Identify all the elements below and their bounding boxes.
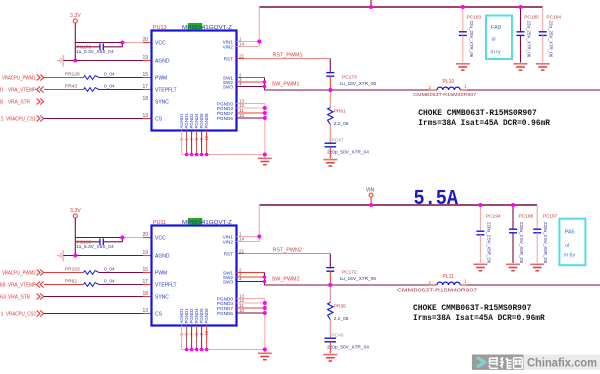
- svg-text:22u_25V_X7R_06: 22u_25V_X7R_06: [549, 21, 554, 58]
- ground (left of AGND): [62, 250, 64, 262]
- capacitor PC47 220p_50V_X7R_04: [325, 142, 337, 144]
- capacitor PC184 22u_25V_X7R_06: [542, 7, 544, 32]
- buck power stage IC PU13 MP86941GQVT-Z: [152, 31, 237, 131]
- svg-text:PC184: PC184: [546, 14, 561, 20]
- green highlight on part number: [188, 23, 203, 29]
- svg-text:2.2_06: 2.2_06: [334, 121, 349, 127]
- svg-text:5.5A: 5.5A: [414, 188, 459, 211]
- svg-text:PC193: PC193: [467, 14, 482, 20]
- watermark arrow: [477, 357, 485, 367]
- svg-text:21: 21: [239, 53, 245, 58]
- capacitor PC173 1u_16V_X7R_06: [326, 72, 334, 74]
- wire AGND to pin 19: [63, 60, 143, 62]
- svg-text:PR153: PR153: [65, 267, 80, 273]
- ground (PGND bus): [264, 155, 266, 158]
- junction: [263, 301, 267, 305]
- svg-text:1u_6.3V_X5S_04: 1u_6.3V_X5S_04: [76, 244, 114, 250]
- junction: [73, 59, 77, 63]
- junction: [263, 280, 267, 284]
- wire resistor to pin: [99, 272, 143, 274]
- buck power stage IC PU11 MP86941GQVT-Z: [152, 226, 237, 326]
- junction: [511, 203, 515, 207]
- PGND bus wire: [182, 349, 265, 351]
- note box (cyan) bottom: [559, 219, 585, 266]
- svg-text:PGND8: PGND8: [204, 113, 209, 129]
- svg-text:220p_50V_X7R_04: 220p_50V_X7R_04: [327, 344, 369, 350]
- wire VIN1/VIN2 to input rail: [237, 41, 260, 43]
- wire RST to RST_PWM1: [237, 58, 245, 60]
- junction: [263, 85, 267, 89]
- green highlight on part number: [188, 218, 203, 224]
- wire to pin: [44, 118, 143, 120]
- svg-text:63: 63: [0, 294, 6, 300]
- svg-text:1: 1: [1, 311, 4, 317]
- svg-text:m ry: m ry: [491, 50, 501, 56]
- wire VIN feed stub (cropped): [370, 0, 372, 7]
- wire input rail (phase 2): [259, 204, 537, 206]
- svg-text:VCC: VCC: [155, 236, 166, 242]
- ground (PC188): [506, 263, 520, 265]
- svg-text:13: 13: [142, 113, 148, 119]
- svg-text:1u_16V_X7R_06: 1u_16V_X7R_06: [340, 81, 377, 87]
- svg-text:PC188: PC188: [519, 214, 534, 220]
- svg-text:PC46: PC46: [332, 333, 344, 339]
- capacitor PC46 220p_50V_X7R_04: [325, 337, 337, 339]
- wire choke output: [467, 89, 600, 91]
- capacitor PC187 220u_2.5V: [536, 205, 538, 229]
- junction: [328, 283, 332, 287]
- svg-text:FA8: FA8: [491, 25, 501, 31]
- svg-text:0_04: 0_04: [104, 84, 115, 90]
- wire SW node down to snubber: [329, 285, 331, 303]
- svg-text:VTEPFLT: VTEPFLT: [155, 88, 177, 94]
- svg-text:VIN: VIN: [366, 187, 375, 193]
- svg-text:220u_2.5V_X5R_D6: 220u_2.5V_X5R_D6: [543, 222, 548, 264]
- resistor PR128 0_04: [84, 76, 100, 80]
- capacitor PC193 22u_25V_X7R_06: [462, 7, 464, 32]
- svg-text:PR61: PR61: [334, 109, 346, 115]
- svg-text:VIN2: VIN2: [223, 44, 234, 49]
- svg-text:PC47: PC47: [332, 138, 344, 144]
- wire resistor to pin: [99, 284, 143, 286]
- svg-text:PWM: PWM: [155, 76, 167, 82]
- junction: [263, 106, 267, 110]
- wire SW1/SW2/SW3 to SW node: [237, 77, 265, 79]
- wire resistor to capacitor: [329, 320, 331, 339]
- svg-text:20: 20: [142, 232, 148, 238]
- svg-text:PR62: PR62: [65, 279, 77, 285]
- resistor PR62 0_04: [84, 283, 100, 287]
- junction: [263, 116, 267, 120]
- svg-text:PC172: PC172: [342, 270, 357, 276]
- resistor PR153 0_04: [84, 271, 100, 275]
- svg-text:ul: ul: [492, 37, 496, 43]
- svg-text:PL10: PL10: [443, 79, 455, 85]
- svg-text:SYNC: SYNC: [155, 100, 169, 106]
- svg-text:CS: CS: [155, 117, 163, 123]
- wire to pin: [44, 313, 143, 315]
- svg-text:VRA_STB: VRA_STB: [8, 294, 30, 300]
- junction: [263, 275, 267, 279]
- svg-text:20: 20: [142, 37, 148, 43]
- svg-text:2.2_06: 2.2_06: [334, 316, 349, 322]
- svg-text:PU11: PU11: [153, 220, 166, 226]
- svg-text:10: 10: [239, 113, 245, 118]
- capacitor PC172 1u_16V_X7R_06: [326, 267, 334, 269]
- svg-text:15: 15: [142, 267, 148, 273]
- wire VCC branch to pin 20: [75, 237, 122, 239]
- svg-text:CS: CS: [155, 312, 163, 318]
- junction: [195, 153, 199, 157]
- svg-text:17: 17: [142, 84, 148, 90]
- svg-text:22u_25V_X7R_06: 22u_25V_X7R_06: [469, 21, 474, 58]
- junction: [200, 153, 204, 157]
- junction: [369, 5, 373, 9]
- svg-text:17: 17: [142, 279, 148, 285]
- resistor PR35 2.2_06: [328, 303, 333, 320]
- ground (PC194): [473, 263, 487, 265]
- junction: [120, 41, 124, 45]
- svg-text:SYNC: SYNC: [155, 295, 169, 301]
- svg-text:Irms=38A Isat=45A DCR=0.96mR: Irms=38A Isat=45A DCR=0.96mR: [418, 118, 550, 128]
- junction: [205, 153, 209, 157]
- svg-text:PR43: PR43: [65, 84, 77, 90]
- svg-text:19: 19: [142, 250, 148, 256]
- capacitor PC170 1u_6.3V_X5S_04: [76, 46, 100, 48]
- svg-text:RST_PWM1: RST_PWM1: [273, 53, 303, 59]
- svg-text:13: 13: [142, 308, 148, 314]
- junction: [257, 40, 261, 44]
- junction: [263, 306, 267, 310]
- junction: [190, 348, 194, 352]
- svg-text:VIN2: VIN2: [223, 239, 234, 244]
- watermark CJK glyph 1: [489, 357, 498, 368]
- svg-text:RST: RST: [224, 251, 234, 256]
- svg-text:PR35: PR35: [334, 304, 346, 310]
- wire resistor to pin: [99, 89, 143, 91]
- ground (left of AGND): [62, 55, 64, 67]
- svg-text:MP86941GQVT-Z: MP86941GQVT-Z: [182, 220, 232, 226]
- junction: [263, 111, 267, 115]
- svg-text:CMMB063T-R15M40R907: CMMB063T-R15M40R907: [397, 288, 478, 293]
- svg-text:PA5: PA5: [565, 230, 575, 236]
- svg-text:PU13: PU13: [153, 25, 167, 31]
- svg-text:220p_50V_X7R_04: 220p_50V_X7R_04: [327, 149, 369, 155]
- junction: [190, 153, 194, 157]
- capacitor PC194 220u_2.5V: [479, 205, 481, 231]
- wire AGND to pin 19: [63, 255, 143, 257]
- svg-text:CMMB063T-R15M40R907: CMMB063T-R15M40R907: [413, 92, 477, 97]
- svg-text:SW3: SW3: [223, 84, 234, 89]
- junction: [519, 5, 523, 9]
- svg-text:PC187: PC187: [543, 214, 558, 220]
- svg-text:8: 8: [0, 99, 3, 105]
- svg-text:VRACPU_PWM1: VRACPU_PWM1: [2, 75, 36, 81]
- ground (PC193): [456, 63, 470, 65]
- svg-text:VCC: VCC: [155, 41, 166, 47]
- svg-text:15: 15: [142, 72, 148, 78]
- wire resistor to pin: [99, 77, 143, 79]
- svg-text:MP86941GQVT-Z: MP86941GQVT-Z: [182, 25, 232, 31]
- junction: [263, 348, 267, 352]
- svg-text:VTEPFLT: VTEPFLT: [155, 283, 177, 289]
- wire SW node to choke: [265, 89, 429, 91]
- svg-text:Irms=38A Isat=45A DCR=0.96mR: Irms=38A Isat=45A DCR=0.96mR: [413, 313, 545, 323]
- svg-text:SW_PWM1: SW_PWM1: [272, 82, 300, 88]
- svg-text:CHOKE CMMB063T-R15MS0R907: CHOKE CMMB063T-R15MS0R907: [413, 303, 531, 313]
- wire VCC branch to pin 20: [75, 42, 122, 44]
- wire to resistor: [44, 272, 84, 274]
- note box (cyan) top: [486, 16, 512, 60]
- junction: [120, 236, 124, 240]
- svg-text:3.3V: 3.3V: [70, 208, 81, 214]
- junction: [263, 153, 267, 157]
- svg-text:19: 19: [142, 55, 148, 61]
- svg-text:220u_2.5V_X5R_D6: 220u_2.5V_X5R_D6: [519, 222, 524, 264]
- wire RST down to bootstrap cap: [329, 254, 331, 267]
- wire RST to RST_PWM2: [237, 253, 245, 255]
- svg-text:0_04: 0_04: [104, 267, 115, 273]
- svg-text:0_04: 0_04: [104, 279, 115, 285]
- wire SW node to choke: [265, 284, 429, 286]
- svg-text:21: 21: [239, 248, 245, 253]
- svg-text:VRA_VTEMP: VRA_VTEMP: [8, 87, 36, 93]
- ground (PC184): [536, 63, 550, 65]
- wire choke output: [467, 284, 600, 286]
- wire SW1/SW2/SW3 to SW node: [237, 272, 265, 274]
- svg-text:1u_6.3V_X5S_04: 1u_6.3V_X5S_04: [76, 49, 114, 55]
- wires bottom pins to PGND bus: [181, 326, 183, 350]
- wires bottom pins to PGND bus: [181, 131, 183, 155]
- svg-text:VRA_VTEMP: VRA_VTEMP: [8, 282, 36, 288]
- resistor PR61 2.2_06: [328, 108, 333, 125]
- watermark CJK glyph 3: [514, 358, 523, 369]
- junction: [461, 5, 465, 9]
- wire PGND pins to ground rail: [237, 103, 265, 105]
- svg-text:1: 1: [1, 116, 4, 122]
- svg-text:ul: ul: [565, 243, 569, 249]
- junction: [263, 311, 267, 315]
- PGND bus wire: [182, 154, 265, 156]
- wire input rail (phase 1): [259, 6, 542, 8]
- svg-text:220u_2.5V_X5R_D6: 220u_2.5V_X5R_D6: [486, 222, 491, 264]
- ground (PGND bus): [264, 350, 266, 353]
- wire to resistor: [44, 89, 84, 91]
- svg-text:1u_16V_X7R_06: 1u_16V_X7R_06: [340, 276, 377, 282]
- svg-text:RST_PWN2: RST_PWN2: [273, 248, 302, 254]
- ground (snubber): [323, 159, 337, 161]
- svg-text:3.3V: 3.3V: [70, 13, 81, 19]
- junction: [185, 348, 189, 352]
- junction: [73, 254, 77, 258]
- svg-text:VRACPU_CS1: VRACPU_CS1: [6, 116, 36, 122]
- svg-text:22u_25V_X7R_06: 22u_25V_X7R_06: [527, 21, 532, 58]
- svg-text:PC194: PC194: [486, 214, 501, 220]
- svg-text:PGND6: PGND6: [217, 116, 234, 121]
- svg-text:0: 0: [0, 87, 3, 93]
- wire to resistor: [44, 77, 84, 79]
- capacitor PC180 1u_6.3V_X5S_04: [76, 241, 100, 243]
- wire PGND pins to ground rail: [237, 298, 265, 300]
- wire resistor to capacitor: [329, 125, 331, 144]
- svg-text:0_04: 0_04: [104, 72, 115, 78]
- svg-text:RST: RST: [224, 56, 234, 61]
- svg-text:,68: ,68: [0, 282, 6, 288]
- junction: [257, 235, 261, 239]
- watermark banner: [472, 355, 524, 370]
- ground (snubber): [323, 354, 337, 356]
- junction: [200, 348, 204, 352]
- svg-text:m by: m by: [564, 253, 576, 259]
- junction: [195, 348, 199, 352]
- wire RST down to bootstrap cap: [329, 59, 331, 72]
- junction: [328, 88, 332, 92]
- watermark CJK glyph 2: [500, 357, 512, 368]
- junction: [263, 80, 267, 84]
- svg-text:PL11: PL11: [443, 274, 455, 280]
- svg-text:10: 10: [239, 308, 245, 313]
- capacitor PC188 220u_2.5V: [512, 205, 514, 229]
- resistor PR43 0_04: [84, 88, 100, 92]
- svg-text:PWM: PWM: [155, 271, 167, 277]
- wire to resistor: [44, 284, 84, 286]
- junction: [369, 203, 373, 207]
- wire SW node down to snubber: [329, 90, 331, 108]
- ground (PC187): [530, 263, 544, 265]
- ground (PC185): [514, 63, 528, 65]
- svg-text:18: 18: [142, 96, 148, 102]
- svg-text:PR128: PR128: [65, 72, 80, 78]
- capacitor PC185 22u_25V_X7R_06: [520, 7, 522, 32]
- svg-text:VRACPU_PWM2: VRACPU_PWM2: [2, 270, 36, 276]
- svg-text:AGND: AGND: [155, 254, 170, 260]
- svg-text:VRACPU_CS2: VRACPU_CS2: [6, 311, 36, 317]
- junction: [205, 348, 209, 352]
- svg-text:PGND6: PGND6: [217, 311, 234, 316]
- svg-text:PC185: PC185: [524, 14, 539, 20]
- svg-text:VRA_STR: VRA_STR: [8, 99, 30, 105]
- junction: [185, 153, 189, 157]
- svg-text:Chinafix.com: Chinafix.com: [527, 355, 597, 369]
- svg-text:18: 18: [142, 291, 148, 297]
- wire VIN1/VIN2 to input rail: [237, 236, 260, 238]
- svg-text:PGND8: PGND8: [204, 308, 209, 324]
- junction: [478, 203, 482, 207]
- svg-text:AGND: AGND: [155, 59, 170, 65]
- wire to pin: [44, 296, 143, 298]
- svg-text:CHOKE CMMB063T-R15MS0R907: CHOKE CMMB063T-R15MS0R907: [418, 108, 536, 118]
- svg-text:PC173: PC173: [342, 75, 357, 81]
- svg-text:SW3: SW3: [223, 279, 234, 284]
- svg-text:SW_PWM2: SW_PWM2: [272, 277, 300, 283]
